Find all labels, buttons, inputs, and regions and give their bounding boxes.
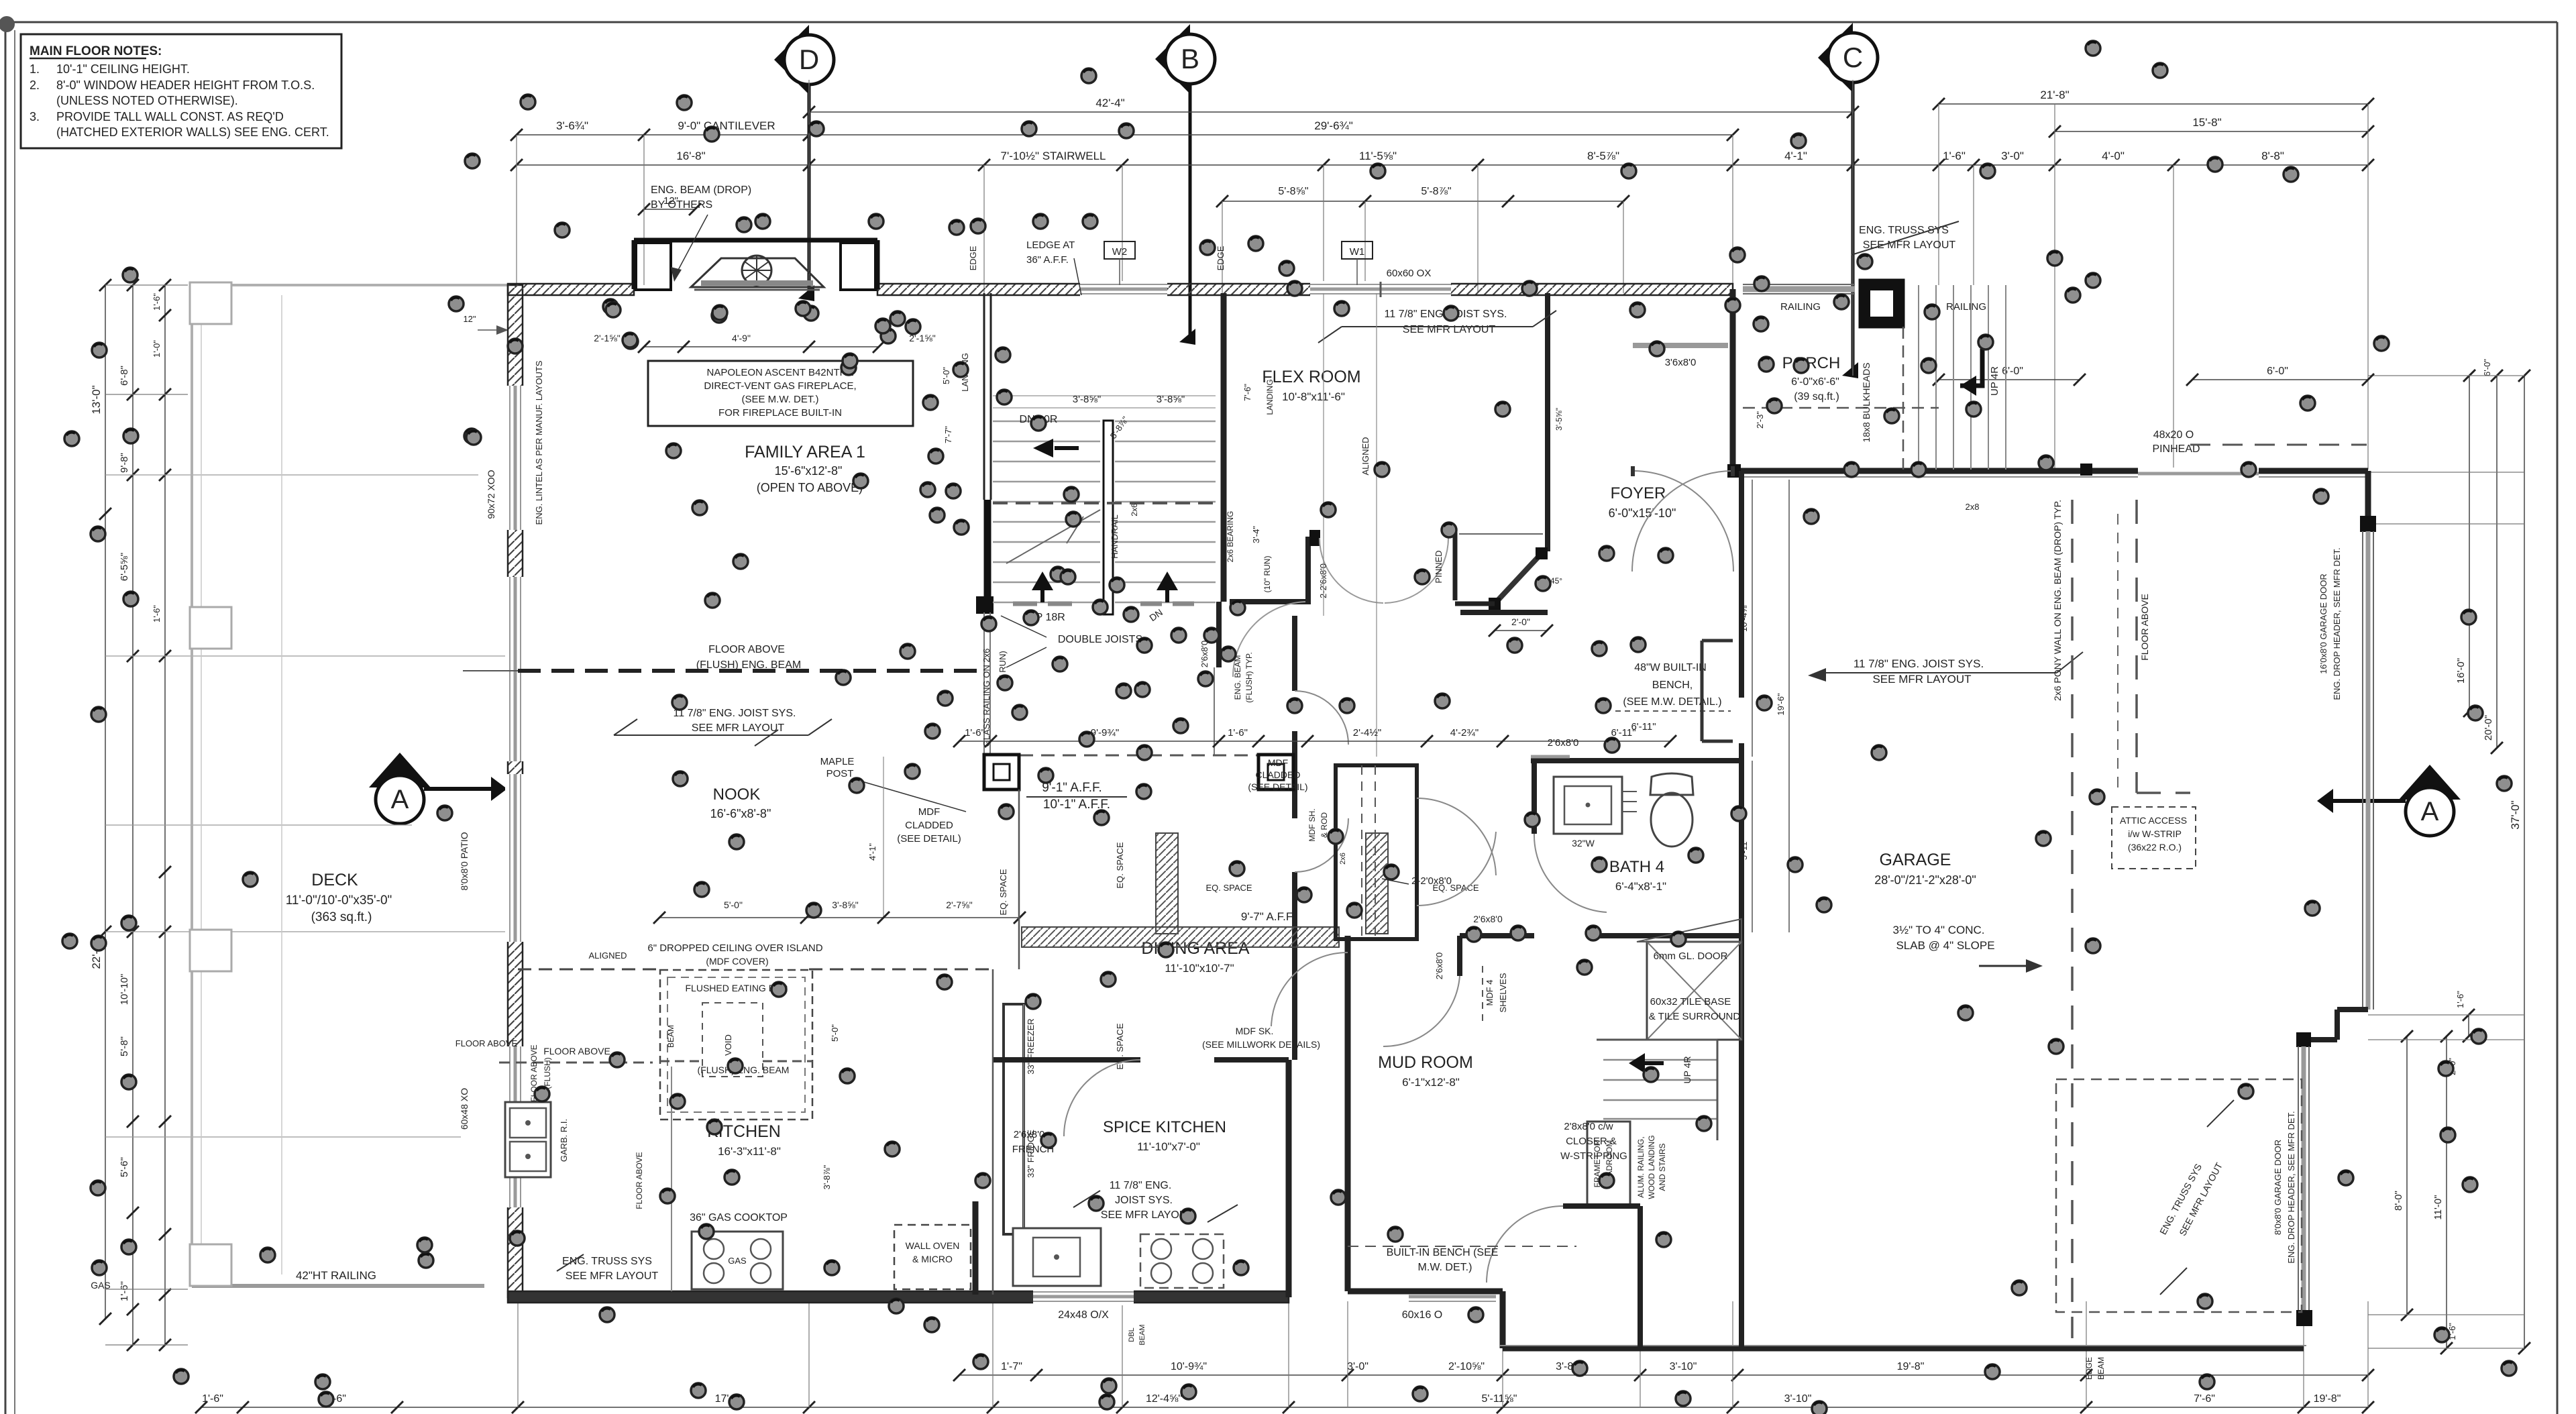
svg-text:EQ. SPACE: EQ. SPACE xyxy=(1205,883,1252,893)
svg-text:2'-7⅝": 2'-7⅝" xyxy=(946,900,973,910)
svg-text:DBL: DBL xyxy=(1128,1327,1136,1342)
svg-text:GAS: GAS xyxy=(91,1280,111,1291)
svg-text:2'8x8'0 c/w: 2'8x8'0 c/w xyxy=(1564,1121,1613,1132)
stair arrows xyxy=(1040,578,1044,602)
svg-text:(SEE DETAIL): (SEE DETAIL) xyxy=(897,833,961,845)
svg-text:UP 4R: UP 4R xyxy=(1989,366,2000,396)
spice cooktop xyxy=(1140,1234,1224,1288)
left dimension chains xyxy=(105,285,106,1319)
svg-text:10'-10": 10'-10" xyxy=(119,974,130,1005)
svg-text:1'-6": 1'-6" xyxy=(1228,727,1248,739)
flex-foyer wall xyxy=(1545,293,1550,551)
svg-text:(39 sq.ft.): (39 sq.ft.) xyxy=(1794,391,1839,402)
svg-text:1.: 1. xyxy=(30,62,40,76)
svg-text:10'-9¾": 10'-9¾" xyxy=(1171,1361,1207,1372)
svg-text:(HATCHED EXTERIOR WALLS) SEE E: (HATCHED EXTERIOR WALLS) SEE ENG. CERT. xyxy=(56,125,329,139)
svg-text:8'-8": 8'-8" xyxy=(2261,150,2284,162)
svg-text:ALUM. RAILING,: ALUM. RAILING, xyxy=(1636,1136,1646,1197)
svg-text:16'-6"x8'-8": 16'-6"x8'-8" xyxy=(710,807,771,820)
svg-text:2-2'0x8'0: 2-2'0x8'0 xyxy=(1411,875,1452,887)
top dimension chains xyxy=(809,111,1853,113)
svg-text:15'-8": 15'-8" xyxy=(2192,116,2221,129)
svg-text:& MICRO: & MICRO xyxy=(912,1254,953,1264)
svg-text:9'-1" A.F.F.: 9'-1" A.F.F. xyxy=(1042,781,1102,795)
svg-text:1'-6": 1'-6" xyxy=(119,1281,130,1301)
svg-text:MDF SH.: MDF SH. xyxy=(1307,808,1317,841)
svg-text:60x60 OX: 60x60 OX xyxy=(1387,268,1432,279)
svg-text:2x6 BEARING: 2x6 BEARING xyxy=(1226,511,1235,563)
south exterior wall (kitchen/nook) xyxy=(508,1291,1289,1303)
svg-text:VOID: VOID xyxy=(723,1034,733,1056)
svg-text:37'-0": 37'-0" xyxy=(2509,800,2522,829)
svg-text:19'-8": 19'-8" xyxy=(1897,1361,1925,1372)
svg-text:FLOOR ABOVE: FLOOR ABOVE xyxy=(708,644,785,655)
svg-text:2'6x8'0: 2'6x8'0 xyxy=(1548,737,1579,749)
svg-text:i/w W-STRIP: i/w W-STRIP xyxy=(2128,828,2182,839)
svg-text:48x20 O: 48x20 O xyxy=(2153,429,2194,441)
svg-text:ENG. BEAM: ENG. BEAM xyxy=(1233,655,1242,700)
svg-text:GARB. R.I.: GARB. R.I. xyxy=(559,1119,569,1162)
svg-text:WOOD LANDING: WOOD LANDING xyxy=(1647,1135,1656,1199)
svg-text:24x48 O/X: 24x48 O/X xyxy=(1058,1309,1109,1321)
svg-text:FLOOR ABOVE: FLOOR ABOVE xyxy=(635,1152,644,1209)
svg-text:6'-0"x15'-10": 6'-0"x15'-10" xyxy=(1609,506,1676,520)
svg-text:3½" TO 4" CONC.: 3½" TO 4" CONC. xyxy=(1892,924,1984,936)
svg-text:3'-8⅝": 3'-8⅝" xyxy=(1157,394,1185,405)
bath door arc xyxy=(1534,834,1607,912)
svg-text:8'-5⅞": 8'-5⅞" xyxy=(1587,150,1619,162)
svg-text:FOR FIREPLACE BUILT-IN: FOR FIREPLACE BUILT-IN xyxy=(718,407,842,419)
right dimension chains xyxy=(2524,376,2525,1348)
svg-text:BATH 4: BATH 4 xyxy=(1609,858,1664,876)
svg-text:2'-10⅝": 2'-10⅝" xyxy=(1448,1361,1485,1372)
svg-text:MAIN FLOOR NOTES:: MAIN FLOOR NOTES: xyxy=(30,44,162,58)
svg-text:(363 sq.ft.): (363 sq.ft.) xyxy=(311,910,372,924)
svg-text:1'-6": 1'-6" xyxy=(965,727,985,739)
svg-text:11 7/8" ENG. JOIST SYS.: 11 7/8" ENG. JOIST SYS. xyxy=(1854,657,1984,670)
svg-text:16'0x8'0 GARAGE DOOR: 16'0x8'0 GARAGE DOOR xyxy=(2318,574,2328,673)
svg-text:& TILE SURROUND: & TILE SURROUND xyxy=(1649,1011,1741,1022)
svg-text:8'-0": 8'-0" xyxy=(2393,1191,2404,1211)
svg-text:(SEE MILLWORK DETAILS): (SEE MILLWORK DETAILS) xyxy=(1202,1039,1320,1050)
section marker D xyxy=(774,25,809,95)
svg-text:POST: POST xyxy=(826,768,854,779)
svg-text:42'-4": 42'-4" xyxy=(1095,97,1124,109)
svg-text:21'-8": 21'-8" xyxy=(2040,89,2069,101)
exterior hatched west wall xyxy=(508,285,523,1297)
svg-text:MDF 4: MDF 4 xyxy=(1485,980,1495,1006)
svg-text:GAS: GAS xyxy=(728,1256,747,1266)
hall wall below stairs xyxy=(1230,599,1308,604)
svg-text:32"W: 32"W xyxy=(1572,838,1595,849)
svg-text:W1: W1 xyxy=(1350,246,1365,258)
section marker A side xyxy=(2399,765,2461,800)
svg-text:2'6x8'0: 2'6x8'0 xyxy=(1473,914,1503,924)
svg-text:11 7/8" ENG.: 11 7/8" ENG. xyxy=(1110,1180,1172,1191)
svg-text:LANDING: LANDING xyxy=(1265,379,1275,415)
svg-text:1'-6": 1'-6" xyxy=(202,1393,223,1405)
svg-text:6'-0": 6'-0" xyxy=(2002,366,2023,377)
svg-text:2x6: 2x6 xyxy=(1339,853,1347,865)
svg-text:W-STRIPPING: W-STRIPPING xyxy=(1560,1150,1627,1162)
window labels xyxy=(1104,241,1135,259)
stair treads xyxy=(993,421,1100,423)
svg-text:48"W BUILT-IN: 48"W BUILT-IN xyxy=(1634,662,1707,673)
svg-text:5'-0": 5'-0" xyxy=(724,900,743,910)
svg-text:(MDF COVER): (MDF COVER) xyxy=(706,956,768,967)
svg-text:7'-7": 7'-7" xyxy=(943,426,953,443)
bottom dimension chains xyxy=(959,1374,2368,1376)
svg-text:SPICE KITCHEN: SPICE KITCHEN xyxy=(1103,1118,1226,1136)
svg-text:3'-8⅞": 3'-8⅞" xyxy=(822,1164,832,1189)
kitchen sink xyxy=(505,1102,551,1177)
svg-text:18x8 BULKHEADS: 18x8 BULKHEADS xyxy=(1861,362,1872,442)
svg-text:UP 4R: UP 4R xyxy=(1682,1056,1693,1084)
mud closet xyxy=(1336,765,1417,939)
stair break line xyxy=(1006,510,1100,563)
svg-text:6'-0"x6'-6": 6'-0"x6'-6" xyxy=(1791,376,1839,388)
foyer double door arcs xyxy=(1633,471,1733,572)
svg-text:8'0x8'0 GARAGE DOOR: 8'0x8'0 GARAGE DOOR xyxy=(2273,1140,2283,1235)
svg-text:(36x22 R.O.): (36x22 R.O.) xyxy=(2128,842,2182,853)
svg-text:SEE MFR LAYOUT: SEE MFR LAYOUT xyxy=(692,722,785,734)
svg-text:90x72 XOO: 90x72 XOO xyxy=(486,470,496,519)
svg-text:ALIGNED: ALIGNED xyxy=(588,950,627,961)
svg-text:11'-5⅝": 11'-5⅝" xyxy=(1359,150,1397,162)
wall oven xyxy=(894,1225,971,1289)
svg-text:33" FREEZER: 33" FREEZER xyxy=(1026,1018,1036,1074)
svg-text:DOUBLE JOISTS: DOUBLE JOISTS xyxy=(1058,634,1142,645)
svg-text:8'0x8'0 PATIO: 8'0x8'0 PATIO xyxy=(459,832,470,890)
svg-text:6mm GL. DOOR: 6mm GL. DOOR xyxy=(1654,950,1728,962)
svg-text:A: A xyxy=(391,785,409,814)
bath4 walls xyxy=(1531,758,1741,763)
bath4 sink xyxy=(1554,777,1622,834)
svg-text:19'-8": 19'-8" xyxy=(2314,1393,2341,1405)
svg-text:EQ. SPACE: EQ. SPACE xyxy=(998,869,1008,915)
svg-text:5'-8⅞": 5'-8⅞" xyxy=(1421,186,1451,197)
svg-text:BY OTHERS: BY OTHERS xyxy=(651,199,712,211)
front door header xyxy=(1633,343,1728,348)
svg-text:CLADDED: CLADDED xyxy=(905,820,953,831)
floor above dashed beam xyxy=(518,669,984,673)
svg-text:15'-6"x12'-8": 15'-6"x12'-8" xyxy=(775,464,843,478)
svg-text:SLAB @ 4" SLOPE: SLAB @ 4" SLOPE xyxy=(1896,939,1994,952)
svg-text:2'-0": 2'-0" xyxy=(1511,616,1530,627)
svg-text:11'-0": 11'-0" xyxy=(2432,1195,2444,1219)
svg-text:3'6x8'0: 3'6x8'0 xyxy=(1665,357,1697,368)
svg-text:13'-0": 13'-0" xyxy=(90,385,103,414)
svg-text:M.W. DET.): M.W. DET.) xyxy=(1418,1262,1472,1273)
basement stairs mud xyxy=(1597,1039,1717,1041)
svg-text:ATTIC ACCESS: ATTIC ACCESS xyxy=(2120,815,2187,826)
svg-text:6" DROPPED CEILING OVER ISLAND: 6" DROPPED CEILING OVER ISLAND xyxy=(647,942,822,954)
svg-text:(SEE M.W. DET.): (SEE M.W. DET.) xyxy=(741,394,818,405)
shower xyxy=(1647,942,1741,1040)
svg-text:HANDRAIL: HANDRAIL xyxy=(1110,514,1120,559)
svg-text:BEAM: BEAM xyxy=(2096,1357,2106,1380)
svg-text:3'-0": 3'-0" xyxy=(1347,1361,1368,1372)
svg-text:11'-0"/10'-0"x35'-0": 11'-0"/10'-0"x35'-0" xyxy=(286,893,392,908)
svg-text:AND STAIRS: AND STAIRS xyxy=(1658,1143,1667,1191)
exterior hatched top wall xyxy=(508,284,634,295)
fridge freezer xyxy=(1004,1004,1024,1234)
svg-text:2x6: 2x6 xyxy=(1130,503,1139,516)
svg-text:BEAM: BEAM xyxy=(666,1025,676,1048)
svg-text:8'-0" WINDOW HEADER HEIGHT FRO: 8'-0" WINDOW HEADER HEIGHT FROM T.O.S. xyxy=(56,78,315,92)
hall small walls xyxy=(1460,933,1534,938)
svg-text:ENG. DROP HEADER, SEE MFR DET.: ENG. DROP HEADER, SEE MFR DET. xyxy=(2286,1111,2296,1263)
svg-text:PORCH: PORCH xyxy=(1782,354,1841,372)
svg-text:28'-0"/21'-2"x28'-0": 28'-0"/21'-2"x28'-0" xyxy=(1874,873,1976,887)
svg-text:W2: W2 xyxy=(1112,246,1128,258)
svg-text:1'-6": 1'-6" xyxy=(152,293,162,311)
svg-text:5'-6": 5'-6" xyxy=(119,1157,130,1177)
attic access dashed xyxy=(2112,807,2196,869)
porch xyxy=(1728,465,1740,477)
svg-text:2'6x8'0: 2'6x8'0 xyxy=(1434,953,1444,979)
svg-text:CLOSER &: CLOSER & xyxy=(1566,1136,1617,1147)
svg-text:LEDGE AT: LEDGE AT xyxy=(1026,239,1075,251)
svg-text:36" GAS COOKTOP: 36" GAS COOKTOP xyxy=(690,1212,788,1223)
section marker A side xyxy=(369,753,431,787)
svg-text:2x6 PONY WALL ON ENG. BEAM (DR: 2x6 PONY WALL ON ENG. BEAM (DROP) TYP. xyxy=(2052,500,2063,701)
svg-text:5'-0": 5'-0" xyxy=(830,1024,840,1042)
svg-text:4'-1": 4'-1" xyxy=(867,843,877,861)
svg-text:42"HT RAILING: 42"HT RAILING xyxy=(296,1269,376,1282)
svg-text:EDGE: EDGE xyxy=(2084,1357,2094,1380)
svg-text:FOYER: FOYER xyxy=(1611,484,1666,502)
svg-text:(SEE M.W. DETAIL.): (SEE M.W. DETAIL.) xyxy=(1623,696,1721,708)
svg-text:2.: 2. xyxy=(30,78,40,92)
svg-text:60x16 O: 60x16 O xyxy=(1402,1309,1442,1321)
svg-text:10'-4⅝": 10'-4⅝" xyxy=(1739,602,1749,632)
svg-text:3'-5⅝": 3'-5⅝" xyxy=(1554,408,1564,431)
svg-text:6'-11": 6'-11" xyxy=(1611,727,1635,739)
svg-text:(FLUSH): (FLUSH) xyxy=(543,1057,552,1089)
svg-text:9'-7" A.F.F.: 9'-7" A.F.F. xyxy=(1241,910,1295,923)
svg-text:B: B xyxy=(1181,43,1199,74)
svg-text:RAILING: RAILING xyxy=(1946,301,1986,313)
svg-text:1'-6": 1'-6" xyxy=(2455,991,2465,1008)
svg-text:(OPEN TO ABOVE): (OPEN TO ABOVE) xyxy=(757,481,863,494)
svg-text:3.: 3. xyxy=(30,110,40,123)
main floor notes box xyxy=(21,34,341,148)
garage dashed floor-above xyxy=(2135,500,2138,793)
svg-text:4'-0": 4'-0" xyxy=(2102,150,2125,162)
svg-text:1'-6": 1'-6" xyxy=(1943,150,1966,162)
spice kitchen sink xyxy=(1013,1228,1101,1286)
fireplace bump-out xyxy=(632,240,637,289)
svg-text:SEE MFR LAYOUT: SEE MFR LAYOUT xyxy=(1872,673,1971,686)
svg-text:ENG. TRUSS SYS: ENG. TRUSS SYS xyxy=(1859,225,1949,236)
svg-text:FLOOR ABOVE: FLOOR ABOVE xyxy=(2139,594,2150,661)
svg-text:9'-8": 9'-8" xyxy=(119,453,130,473)
svg-text:60x32 TILE BASE: 60x32 TILE BASE xyxy=(1650,996,1731,1008)
svg-text:3'-10": 3'-10" xyxy=(1784,1393,1812,1405)
svg-text:(10" RUN): (10" RUN) xyxy=(1263,556,1272,593)
dashed between mdf columns xyxy=(1020,755,1258,757)
svg-text:11'-10"x10'-7": 11'-10"x10'-7" xyxy=(1165,962,1234,975)
svg-text:ENG. DROP HEADER, SEE MFR DET.: ENG. DROP HEADER, SEE MFR DET. xyxy=(2332,547,2342,700)
svg-text:5'-8": 5'-8" xyxy=(119,1036,130,1056)
hallway walls below flex xyxy=(1305,537,1311,604)
svg-text:29'-6¾": 29'-6¾" xyxy=(1314,119,1352,132)
svg-text:NOOK: NOOK xyxy=(713,785,761,804)
toilet xyxy=(1650,773,1693,795)
dining-kitchen beam dashed xyxy=(809,969,993,971)
svg-text:RAILING: RAILING xyxy=(1780,301,1821,313)
svg-text:DECK: DECK xyxy=(311,871,358,889)
svg-text:(FLUSH) TYP.: (FLUSH) TYP. xyxy=(1244,652,1254,703)
mdf columns xyxy=(984,755,1019,790)
svg-text:(UNLESS NOTED OTHERWISE).: (UNLESS NOTED OTHERWISE). xyxy=(56,94,238,107)
svg-text:MDF: MDF xyxy=(1268,757,1288,768)
svg-text:1'-7": 1'-7" xyxy=(1001,1361,1022,1372)
svg-text:3'-6¾": 3'-6¾" xyxy=(556,119,588,132)
svg-text:SEE MFR LAYOUT: SEE MFR LAYOUT xyxy=(566,1270,659,1282)
svg-text:10'-8"x11'-6": 10'-8"x11'-6" xyxy=(1282,390,1345,403)
svg-text:PROVIDE TALL WALL CONST. AS RE: PROVIDE TALL WALL CONST. AS REQ'D xyxy=(56,110,284,123)
svg-text:WALL OVEN: WALL OVEN xyxy=(906,1240,960,1251)
svg-text:CLADDED: CLADDED xyxy=(1256,769,1301,780)
svg-text:3'-0": 3'-0" xyxy=(2001,150,2024,162)
svg-text:PINNED: PINNED xyxy=(1434,550,1444,583)
svg-text:5'-0": 5'-0" xyxy=(941,367,951,384)
svg-text:7'-6": 7'-6" xyxy=(1242,384,1252,401)
svg-text:6'-1"x12'-8": 6'-1"x12'-8" xyxy=(1402,1076,1460,1089)
svg-text:2'-3": 2'-3" xyxy=(1755,411,1765,429)
svg-text:A: A xyxy=(2421,797,2439,826)
svg-text:16'-3"x11'-8": 16'-3"x11'-8" xyxy=(718,1145,781,1158)
svg-text:MDF: MDF xyxy=(918,806,941,818)
svg-text:FLOOR ABOVE: FLOOR ABOVE xyxy=(543,1046,610,1056)
svg-text:16'-0": 16'-0" xyxy=(2455,658,2467,684)
svg-text:EDGE: EDGE xyxy=(1216,246,1226,270)
svg-text:ENG. BEAM (DROP): ENG. BEAM (DROP) xyxy=(651,184,751,196)
svg-text:2'-4½": 2'-4½" xyxy=(1353,727,1381,739)
svg-text:2'-1⅝": 2'-1⅝" xyxy=(594,333,621,343)
angled door near foyer xyxy=(1495,553,1542,604)
svg-text:4'-2¾": 4'-2¾" xyxy=(1450,727,1479,739)
svg-text:GARAGE: GARAGE xyxy=(1880,851,1951,869)
fireplace note box xyxy=(648,361,913,426)
section marker B xyxy=(1155,24,1190,94)
svg-text:7'-10½" STAIRWELL: 7'-10½" STAIRWELL xyxy=(1001,150,1106,162)
svg-text:MAPLE: MAPLE xyxy=(820,756,855,767)
svg-text:60x48 XO: 60x48 XO xyxy=(459,1088,470,1130)
svg-text:6'-0": 6'-0" xyxy=(2267,366,2288,377)
svg-text:FLOOR ABOVE: FLOOR ABOVE xyxy=(455,1038,518,1048)
porch steps arrow UP 4R xyxy=(1960,349,1982,386)
deck outline xyxy=(190,284,508,286)
svg-text:19'-6": 19'-6" xyxy=(1776,693,1786,716)
nook dim chain xyxy=(883,757,884,918)
mud room arcs xyxy=(1417,798,1496,875)
svg-text:FLEX ROOM: FLEX ROOM xyxy=(1262,368,1360,386)
svg-text:FAMILY AREA 1: FAMILY AREA 1 xyxy=(745,443,865,461)
island xyxy=(660,970,812,1120)
svg-text:SEE MFR LAYOUT: SEE MFR LAYOUT xyxy=(1863,239,1956,251)
svg-text:3'-10": 3'-10" xyxy=(1670,1361,1697,1372)
svg-text:DIRECT-VENT GAS FIREPLACE,: DIRECT-VENT GAS FIREPLACE, xyxy=(704,380,856,392)
svg-text:3'-4": 3'-4" xyxy=(1251,526,1261,543)
svg-text:5'-11⅝": 5'-11⅝" xyxy=(1482,1393,1517,1405)
svg-text:6'-5⅝": 6'-5⅝" xyxy=(119,553,130,581)
svg-text:6'-4"x8'-1": 6'-4"x8'-1" xyxy=(1615,880,1666,893)
svg-text:2'6x8'0: 2'6x8'0 xyxy=(1199,641,1210,667)
svg-text:MUD ROOM: MUD ROOM xyxy=(1378,1053,1473,1072)
svg-text:2'6x8'0: 2'6x8'0 xyxy=(1014,1129,1045,1140)
svg-text:ALIGNED: ALIGNED xyxy=(1360,437,1371,475)
garage east walls + doors xyxy=(1730,289,1736,471)
floor above dashed over stairs xyxy=(993,502,1218,504)
svg-text:1'-0": 1'-0" xyxy=(152,340,162,358)
svg-text:(SEE DETAIL): (SEE DETAIL) xyxy=(1248,781,1307,792)
svg-text:4'-9": 4'-9" xyxy=(732,333,751,343)
svg-text:20'-0": 20'-0" xyxy=(2483,715,2494,741)
svg-text:7'-6": 7'-6" xyxy=(2194,1393,2215,1405)
svg-text:EDGE: EDGE xyxy=(968,246,978,270)
svg-text:BEAM: BEAM xyxy=(1138,1324,1146,1345)
svg-text:NAPOLEON ASCENT B42NTRE: NAPOLEON ASCENT B42NTRE xyxy=(707,367,854,378)
svg-text:5'-11": 5'-11" xyxy=(1739,838,1749,861)
svg-text:D: D xyxy=(799,44,819,75)
garage door dashed region xyxy=(2056,1079,2302,1312)
svg-text:5'-8⅝": 5'-8⅝" xyxy=(1278,186,1308,197)
svg-text:MDF SK.: MDF SK. xyxy=(1236,1026,1274,1036)
mudroom south + garage walls xyxy=(1286,1060,1292,1297)
svg-text:16'-8": 16'-8" xyxy=(676,150,705,162)
handrail xyxy=(1104,421,1113,614)
svg-text:3'-8⅝": 3'-8⅝" xyxy=(832,900,859,910)
svg-text:BUILT-IN BENCH (SEE: BUILT-IN BENCH (SEE xyxy=(1387,1247,1499,1258)
svg-text:SEE MFR LAYOUT: SEE MFR LAYOUT xyxy=(1403,324,1496,335)
gas cooktop xyxy=(692,1232,783,1289)
svg-text:EQ. SPACE: EQ. SPACE xyxy=(1115,842,1125,888)
svg-text:BENCH,: BENCH, xyxy=(1652,679,1693,691)
svg-text:45°: 45° xyxy=(1550,576,1562,586)
svg-text:12": 12" xyxy=(463,314,476,324)
svg-text:2x8: 2x8 xyxy=(1966,502,1980,512)
svg-text:SHELVES: SHELVES xyxy=(1498,973,1508,1012)
page border xyxy=(5,22,7,1414)
svg-text:ENG. LINTEL AS PER MANUF. LAYO: ENG. LINTEL AS PER MANUF. LAYOUTS xyxy=(534,360,544,525)
stairwell walls xyxy=(983,293,985,500)
svg-text:ENG. TRUSS SYS: ENG. TRUSS SYS xyxy=(562,1256,652,1267)
svg-text:36" A.F.F.: 36" A.F.F. xyxy=(1026,254,1069,266)
svg-text:9'-0" CANTILEVER: 9'-0" CANTILEVER xyxy=(678,119,775,132)
svg-text:3'-8⅝": 3'-8⅝" xyxy=(1073,394,1101,405)
spice kitchen wall xyxy=(994,1057,1140,1063)
svg-text:11'-10"x7'-0": 11'-10"x7'-0" xyxy=(1137,1140,1200,1153)
svg-text:JOIST SYS.: JOIST SYS. xyxy=(1115,1195,1173,1206)
svg-text:C: C xyxy=(1843,42,1863,73)
svg-text:6'-0": 6'-0" xyxy=(2482,359,2492,376)
svg-text:1'-6": 1'-6" xyxy=(152,605,162,622)
svg-text:11 7/8" ENG. JOIST SYS.: 11 7/8" ENG. JOIST SYS. xyxy=(674,708,796,719)
svg-text:6'-8": 6'-8" xyxy=(119,366,130,386)
section marker C xyxy=(1818,23,1853,93)
svg-text:10'-1" CEILING HEIGHT.: 10'-1" CEILING HEIGHT. xyxy=(56,62,190,76)
svg-text:12'-4⅝": 12'-4⅝" xyxy=(1146,1393,1182,1405)
kitchen counters xyxy=(992,969,994,1295)
svg-text:4'-1": 4'-1" xyxy=(1784,150,1807,162)
svg-text:(FLUSH) ENG. BEAM: (FLUSH) ENG. BEAM xyxy=(696,659,801,671)
